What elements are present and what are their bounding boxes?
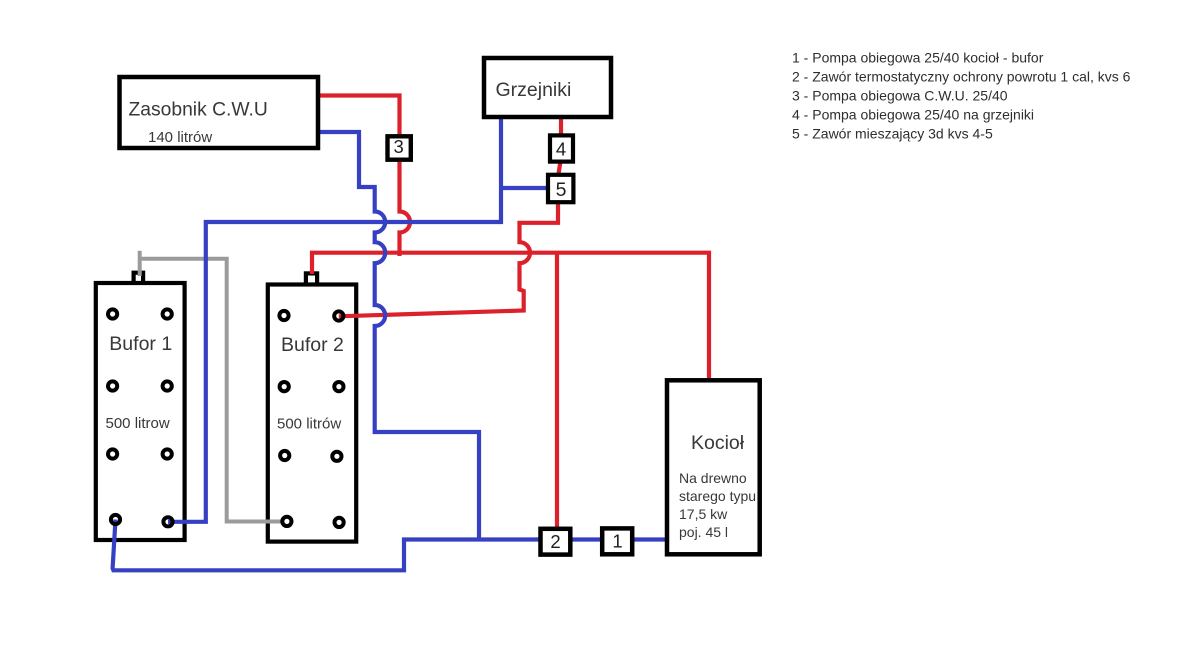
svg-text:poj. 45 l: poj. 45 l xyxy=(679,524,728,540)
svg-text:Na drewno: Na drewno xyxy=(679,470,747,486)
svg-text:Bufor 2: Bufor 2 xyxy=(281,334,344,356)
svg-text:1: 1 xyxy=(612,531,622,552)
svg-text:Bufor 1: Bufor 1 xyxy=(109,333,172,355)
svg-text:Grzejniki: Grzejniki xyxy=(496,79,572,101)
svg-text:1 - Pompa obiegowa 25/40 kocio: 1 - Pompa obiegowa 25/40 kocioł - bufor xyxy=(792,50,1044,66)
svg-text:2: 2 xyxy=(550,531,560,552)
svg-text:3: 3 xyxy=(394,136,404,157)
svg-text:17,5 kw: 17,5 kw xyxy=(679,506,728,522)
svg-text:4: 4 xyxy=(556,138,566,159)
svg-text:starego typu: starego typu xyxy=(679,488,756,504)
svg-text:Kocioł: Kocioł xyxy=(691,432,745,454)
svg-text:2 - Zawór termostatyczny ochro: 2 - Zawór termostatyczny ochrony powrotu… xyxy=(792,69,1131,85)
svg-text:500 litrów: 500 litrów xyxy=(277,416,341,433)
svg-text:Zasobnik C.W.U: Zasobnik C.W.U xyxy=(129,100,268,121)
svg-text:3 - Pompa obiegowa C.W.U. 25/4: 3 - Pompa obiegowa C.W.U. 25/40 xyxy=(792,88,1008,104)
svg-text:5: 5 xyxy=(556,179,567,201)
svg-text:5 - Zawór mieszający 3d kvs 4-: 5 - Zawór mieszający 3d kvs 4-5 xyxy=(792,126,993,142)
svg-text:4 - Pompa obiegowa 25/40 na gr: 4 - Pompa obiegowa 25/40 na grzejniki xyxy=(792,107,1034,123)
svg-text:500 litrow: 500 litrow xyxy=(106,415,170,432)
svg-text:140 litrów: 140 litrów xyxy=(148,129,212,146)
